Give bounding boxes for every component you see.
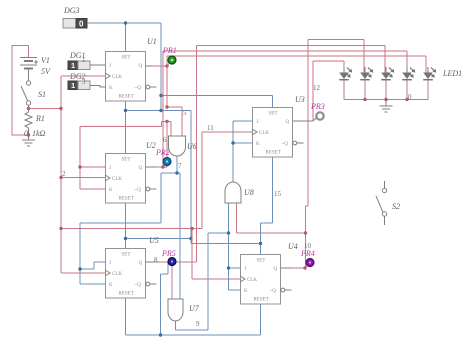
svg-text:J: J: [256, 120, 258, 125]
wire: PR3 stub: [313, 117, 317, 121]
svg-text:2: 2: [62, 170, 66, 178]
svg-text:Q: Q: [274, 267, 278, 272]
svg-text:U1: U1: [147, 37, 157, 46]
svg-text:S2: S2: [392, 202, 400, 211]
wire: PR4 stub: [305, 264, 309, 268]
wire: battery loop red V1 to ground: [12, 46, 29, 136]
svg-text:RESET: RESET: [119, 95, 134, 100]
svg-text:RESET: RESET: [119, 292, 134, 297]
probe PR1: [168, 56, 176, 64]
svg-text:DG3: DG3: [63, 6, 80, 15]
LED D5: [423, 67, 436, 80]
svg-text:SET: SET: [257, 259, 266, 264]
flip-flop U3: [252, 108, 304, 158]
flip-flop U1: [105, 52, 157, 102]
svg-text:J: J: [244, 267, 246, 272]
svg-text:K: K: [109, 283, 113, 288]
svg-text:U2: U2: [146, 141, 156, 150]
net Q3: U5 output to LED3, U7 input: [158, 46, 385, 300]
svg-text:S1: S1: [38, 90, 46, 99]
resistor R1: [25, 109, 32, 136]
svg-text:7: 7: [178, 162, 182, 170]
wire: PR5 node tap to bottom reset bus: [161, 262, 169, 335]
digital constant DG3: [63, 19, 87, 29]
net Q5: U3 output to LED1: [313, 61, 344, 121]
svg-text:8: 8: [154, 256, 158, 264]
net Q2: U2 output to LED4: [155, 51, 407, 167]
net 0: DG3 blue wire to SET/RESET pins: [87, 23, 273, 335]
switch S2: [376, 181, 387, 225]
battery V1: [20, 58, 38, 76]
svg-text:~Q: ~Q: [135, 188, 142, 193]
svg-text:U4: U4: [288, 242, 298, 251]
node: bottom bus junction: [159, 333, 162, 336]
wire: U1.Q pin stub: [146, 65, 152, 67]
svg-text:U8: U8: [244, 188, 254, 197]
svg-text:5: 5: [183, 109, 187, 117]
wire: PR2 stub: [163, 163, 166, 167]
AND gate U7: [168, 299, 183, 321]
net Q4: U4 output to LED2, U8 input: [237, 40, 365, 269]
AND gate U6: [169, 136, 186, 156]
probe PR2: [163, 158, 171, 166]
AND gate U8: [225, 182, 241, 203]
svg-text:K: K: [256, 142, 260, 147]
svg-text:1: 1: [71, 81, 75, 90]
wire: DG2 to U1.K: [90, 86, 105, 88]
svg-text:Q: Q: [139, 166, 143, 171]
svg-text:J: J: [109, 261, 111, 266]
svg-text:RESET: RESET: [119, 197, 134, 202]
wire: DG1 to U1.J: [90, 64, 105, 66]
svg-text:U3: U3: [295, 95, 305, 104]
svg-text:0: 0: [24, 129, 28, 138]
LED D3: [381, 67, 394, 80]
svg-text:0: 0: [79, 20, 84, 29]
svg-text:~Q: ~Q: [270, 289, 277, 294]
node: clock junctions: [59, 107, 193, 230]
svg-text:0: 0: [408, 93, 412, 101]
svg-text:U6: U6: [187, 142, 197, 151]
svg-text:Q: Q: [139, 261, 143, 266]
svg-text:RESET: RESET: [254, 298, 269, 303]
probe PR4: [306, 259, 314, 267]
svg-text:~Q: ~Q: [135, 86, 142, 91]
svg-text:SET: SET: [122, 253, 131, 258]
ground under LEDs: [380, 100, 393, 113]
svg-text:SET: SET: [122, 158, 131, 163]
net 9: U7 output to U8 input and U4 J/K: [176, 203, 241, 330]
svg-text:3: 3: [82, 78, 86, 86]
svg-text:V1: V1: [41, 56, 50, 65]
LED D2: [360, 67, 373, 80]
flip-flop U5: [105, 249, 157, 299]
LED D4: [402, 67, 415, 80]
wire: clock tap from S1 node: [29, 108, 62, 110]
node: S1/R1 junction: [27, 107, 30, 110]
svg-text:LED1: LED1: [442, 69, 462, 78]
probe PR3: [316, 112, 323, 119]
wire: PR1 stub: [167, 61, 171, 66]
svg-text:Q: Q: [286, 120, 290, 125]
svg-text:J: J: [109, 166, 111, 171]
svg-text:PR1: PR1: [162, 46, 177, 55]
svg-text:11: 11: [207, 124, 214, 132]
svg-text:PR2: PR2: [155, 148, 170, 157]
probe PR5: [168, 258, 176, 266]
svg-text:RESET: RESET: [266, 151, 281, 156]
net clock: red wires from S1 to all CLK pins: [61, 76, 252, 279]
node: Q1 junctions: [78, 64, 168, 168]
svg-text:~Q: ~Q: [135, 283, 142, 288]
net Q1: U1 output to LED5, U6 inputs, U2 J/K: [80, 56, 426, 189]
flip-flop U4: [240, 255, 292, 305]
svg-text:K: K: [244, 289, 248, 294]
svg-text:15: 15: [274, 190, 282, 198]
svg-text:K: K: [109, 86, 113, 91]
flip-flop U2: [105, 154, 157, 204]
net U8 out: to U3 J/K tie: [233, 121, 252, 182]
svg-text:CLK: CLK: [247, 278, 257, 283]
svg-text:SET: SET: [122, 56, 131, 61]
ground under R1: [22, 135, 35, 146]
svg-text:CLK: CLK: [112, 75, 122, 80]
svg-text:J: J: [109, 64, 111, 69]
net 7: U6 output to U5 J/K and U7 input: [80, 156, 180, 299]
svg-text:12: 12: [313, 84, 321, 92]
svg-text:1kΩ: 1kΩ: [32, 129, 46, 138]
svg-text:PR3: PR3: [310, 102, 325, 111]
node: R1 bottom / ground: [27, 133, 30, 136]
svg-text:~Q: ~Q: [282, 142, 289, 147]
digital constant DG1: [68, 61, 90, 70]
svg-text:CLK: CLK: [112, 272, 122, 277]
svg-text:9: 9: [196, 320, 200, 328]
svg-text:6: 6: [163, 136, 167, 144]
node: net0 junctions: [124, 21, 262, 245]
svg-text:U5: U5: [149, 236, 159, 245]
svg-text:PR5: PR5: [161, 249, 176, 258]
svg-text:Q: Q: [139, 64, 143, 69]
svg-text:U7: U7: [189, 304, 200, 313]
svg-text:PR4: PR4: [300, 249, 315, 258]
svg-text:CLK: CLK: [259, 131, 269, 136]
svg-text:1: 1: [82, 56, 86, 64]
LED bus bottom wire: [344, 80, 428, 100]
svg-text:CLK: CLK: [112, 177, 122, 182]
LED D1: [339, 67, 352, 80]
svg-text:R1: R1: [35, 114, 45, 123]
svg-text:5V: 5V: [41, 67, 51, 76]
svg-text:1: 1: [71, 61, 75, 70]
digital constant DG2: [68, 81, 90, 90]
svg-text:K: K: [109, 188, 113, 193]
switch S1: [21, 75, 31, 109]
svg-text:SET: SET: [269, 112, 278, 117]
